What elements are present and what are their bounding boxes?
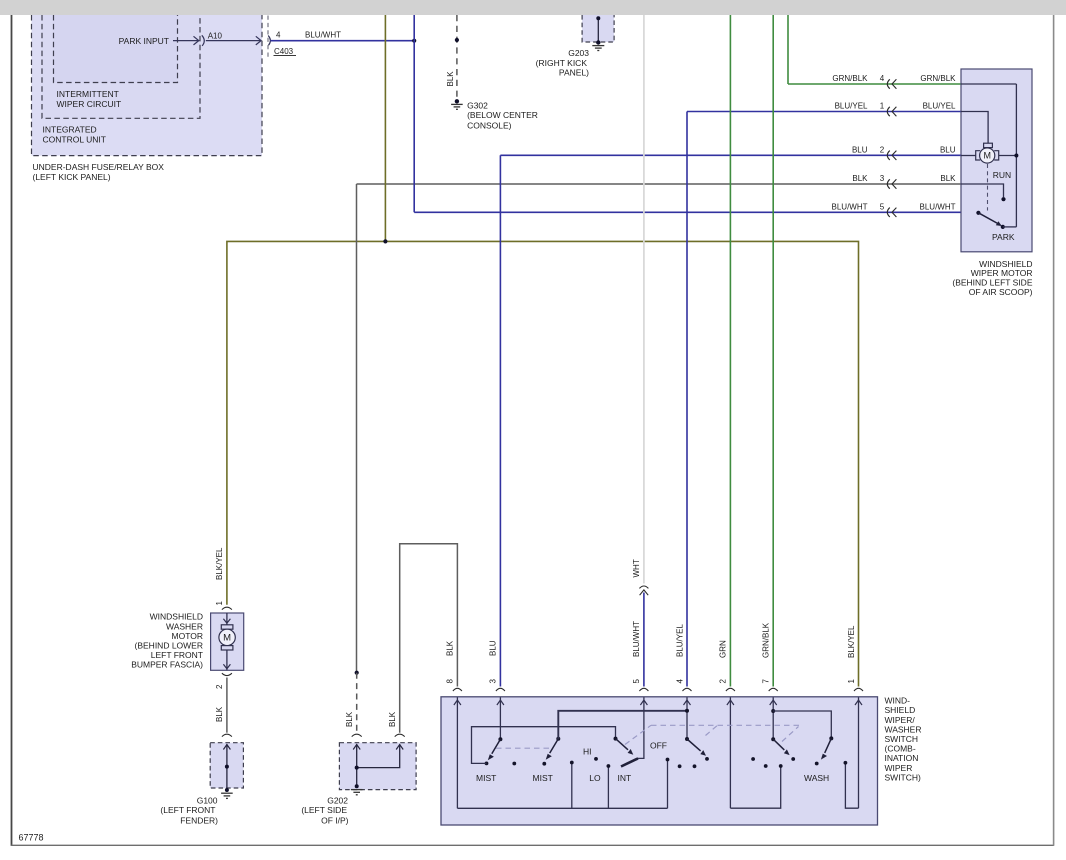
WASH feed contact bbox=[779, 764, 783, 768]
node bottom G203 bbox=[596, 40, 600, 44]
svg-text:PARK: PARK bbox=[992, 232, 1015, 242]
riser to OFF contact bbox=[667, 760, 669, 809]
svg-text:BLU/YEL: BLU/YEL bbox=[675, 624, 684, 657]
MIST arm 1 pivot bbox=[498, 737, 502, 741]
junction node motor to park line bbox=[1014, 154, 1018, 158]
WASH arm pivot bbox=[829, 736, 833, 740]
svg-text:MIST: MIST bbox=[533, 773, 553, 783]
svg-text:G302: G302 bbox=[467, 100, 488, 110]
svg-text:WIPER/: WIPER/ bbox=[885, 715, 916, 725]
pin 4 entry arrow to pivot bbox=[686, 697, 688, 739]
washer motor M symbol bbox=[219, 625, 235, 650]
connector arc G202 right bbox=[395, 734, 405, 736]
connector arc G202 left bbox=[352, 734, 362, 736]
pin 7 junction node bbox=[771, 709, 775, 713]
svg-text:WASH: WASH bbox=[804, 773, 829, 783]
svg-text:3: 3 bbox=[489, 679, 498, 684]
svg-text:INATION: INATION bbox=[885, 753, 919, 763]
wire BLK switch pin 8 to G202 bbox=[400, 544, 458, 733]
G100 internal wire with arrow bbox=[226, 744, 228, 790]
G100 ground node bbox=[225, 788, 229, 792]
svg-text:BLK: BLK bbox=[446, 71, 455, 87]
connector arc C403 bbox=[268, 36, 270, 46]
pin 3 entry arrow to MIST pivot bbox=[499, 697, 501, 739]
svg-text:67778: 67778 bbox=[19, 833, 44, 843]
svg-text:WINDSHIELD: WINDSHIELD bbox=[150, 612, 203, 622]
svg-text:LEFT FRONT: LEFT FRONT bbox=[151, 650, 203, 660]
wire BLK/YEL horizontal run bbox=[227, 241, 859, 686]
wire GRN/BLK row to wiper motor pin 4 bbox=[788, 74, 961, 89]
ground box G203 (dashed) bbox=[582, 15, 614, 42]
WASH arm blade bbox=[825, 738, 832, 753]
wire BLK row to wiper motor pin 3 bbox=[357, 174, 962, 189]
svg-text:BLU/YEL: BLU/YEL bbox=[923, 102, 956, 111]
pin 7 entry arrow bbox=[772, 697, 774, 739]
connector arc pin 4 bbox=[683, 688, 692, 691]
wiper motor park switch arm blade bbox=[978, 213, 997, 224]
HI contact bbox=[594, 757, 598, 761]
svg-text:BLK: BLK bbox=[446, 640, 455, 656]
connector arc washer pin 2 bbox=[222, 673, 232, 675]
riser to INT left contact bbox=[607, 766, 609, 808]
svg-text:PANEL): PANEL) bbox=[559, 67, 589, 77]
windshield wiper/washer switch box bbox=[441, 697, 878, 825]
connector arc pin 7 bbox=[769, 688, 778, 691]
svg-text:BLU: BLU bbox=[489, 640, 498, 656]
svg-text:A10: A10 bbox=[208, 31, 223, 40]
svg-text:SWITCH): SWITCH) bbox=[885, 772, 922, 782]
WASH arm contact bbox=[815, 762, 819, 766]
wiper motor M symbol bbox=[976, 143, 999, 163]
riser to LO contact bbox=[571, 763, 573, 809]
G202 ground node bbox=[355, 784, 359, 788]
label G202 (LEFT SIDE OF I/P) bbox=[301, 795, 348, 825]
ground node G302 bbox=[455, 99, 459, 103]
caption WINDSHIELD WASHER MOTOR (BEHIND LOWER LEFT FRONT BUMPER FASCIA) bbox=[131, 612, 203, 670]
svg-text:BLK: BLK bbox=[940, 174, 956, 183]
wire BLU row to wiper motor pin 2 bbox=[500, 145, 961, 160]
ground symbol G203 bbox=[592, 46, 604, 51]
svg-text:HI: HI bbox=[583, 747, 592, 757]
svg-text:2: 2 bbox=[215, 684, 224, 689]
OFF/INT arm pivot bbox=[614, 737, 618, 741]
svg-text:4: 4 bbox=[675, 679, 684, 684]
wiper motor internal GRN/BLK to park vertical bbox=[961, 83, 1016, 85]
under-dash fuse/relay box (outer dashed box) bbox=[32, 15, 263, 156]
junction node on BLU/WHT wire bbox=[412, 39, 416, 43]
ground box G100 (dashed) bbox=[210, 743, 243, 788]
contacts near pin 4 arm bbox=[678, 764, 682, 768]
pin 7 arm contact bbox=[791, 757, 795, 761]
svg-text:BUMPER FASCIA): BUMPER FASCIA) bbox=[131, 660, 203, 670]
pin 4 arm pivot bbox=[685, 737, 689, 741]
wire BLU/YEL row to wiper motor pin 1 bbox=[687, 102, 961, 117]
inline connector arcs WHT to BLU/WHT bbox=[639, 586, 648, 588]
svg-text:M: M bbox=[223, 633, 231, 644]
svg-text:MOTOR: MOTOR bbox=[172, 631, 203, 641]
connector C403 dashed line bbox=[267, 16, 269, 58]
wiper motor internal BLU/YEL to motor top bbox=[961, 112, 988, 144]
frame left border bbox=[11, 15, 13, 846]
ground symbol G202 bbox=[351, 790, 363, 795]
ground symbol G100 bbox=[221, 793, 233, 798]
RUN contact node bbox=[1001, 197, 1005, 201]
pin 8 entry arrow bbox=[456, 697, 458, 808]
svg-text:BLU/WHT: BLU/WHT bbox=[305, 31, 341, 40]
svg-text:4: 4 bbox=[880, 74, 885, 83]
G202 splice node bbox=[355, 766, 359, 770]
wire BLU/WHT row to wiper motor pin 5 bbox=[414, 202, 961, 217]
arrowhead at A10 bbox=[194, 36, 199, 45]
connector arc A10 bbox=[202, 35, 204, 46]
G202 internal left wire with arrow bbox=[356, 744, 358, 786]
svg-text:WIPER CIRCUIT: WIPER CIRCUIT bbox=[57, 99, 122, 109]
wire BLU/WHT from junction to motor row bbox=[413, 15, 415, 212]
frame right border bbox=[1053, 15, 1055, 846]
svg-text:CONTROL UNIT: CONTROL UNIT bbox=[43, 134, 106, 144]
svg-text:(COMB-: (COMB- bbox=[885, 744, 916, 754]
svg-text:5: 5 bbox=[880, 202, 885, 211]
svg-text:CONSOLE): CONSOLE) bbox=[467, 121, 512, 131]
svg-text:WASHER: WASHER bbox=[166, 621, 203, 631]
svg-text:1: 1 bbox=[847, 679, 856, 684]
wiper motor internal motor right to junction bbox=[999, 155, 1017, 157]
svg-text:GRN: GRN bbox=[719, 640, 728, 658]
wire BLK from motor row down to G202 splice bbox=[356, 184, 358, 673]
svg-text:BLK: BLK bbox=[345, 711, 354, 727]
connector arc pin 1 bbox=[854, 688, 863, 691]
svg-text:OF I/P): OF I/P) bbox=[321, 816, 349, 826]
node top G203 bbox=[596, 16, 600, 20]
svg-text:(LEFT KICK PANEL): (LEFT KICK PANEL) bbox=[33, 172, 111, 182]
junction node BLK/YEL bbox=[383, 239, 387, 243]
wiper motor internal BLU to motor left bbox=[961, 155, 976, 157]
washer internal wire in with arrow bbox=[226, 613, 228, 625]
wire PARK INPUT to connector A10 bbox=[173, 40, 198, 42]
svg-text:WIPER: WIPER bbox=[885, 763, 913, 773]
MIST arm 2 pivot bbox=[556, 737, 560, 741]
switch bottom bus left bbox=[457, 807, 667, 809]
svg-text:BLU: BLU bbox=[940, 145, 956, 154]
wire BLK dashed splice to G202 bbox=[356, 673, 358, 733]
svg-text:GRN/BLK: GRN/BLK bbox=[762, 622, 771, 658]
svg-text:SWITCH: SWITCH bbox=[885, 734, 919, 744]
svg-text:WIND-: WIND- bbox=[885, 696, 911, 706]
windshield wiper motor box bbox=[961, 69, 1032, 252]
wire BLK washer to G100 bbox=[226, 678, 228, 733]
svg-text:OF AIR SCOOP): OF AIR SCOOP) bbox=[969, 287, 1033, 297]
svg-text:(LEFT FRONT: (LEFT FRONT bbox=[160, 805, 215, 815]
svg-text:BLU/YEL: BLU/YEL bbox=[835, 102, 868, 111]
caption WIND-SHIELD WIPER/WASHER SWITCH (COMBINATION WIPER SWITCH) bbox=[885, 696, 922, 783]
wire BLU/YEL from motor row down to switch pin 4 bbox=[686, 112, 688, 687]
svg-text:BLK/YEL: BLK/YEL bbox=[215, 547, 224, 580]
svg-text:2: 2 bbox=[880, 145, 885, 154]
pin 4 arm contact bbox=[705, 757, 709, 761]
label G100 (LEFT FRONT FENDER) bbox=[160, 795, 218, 825]
svg-text:BLU/WHT: BLU/WHT bbox=[632, 621, 641, 657]
svg-text:OFF: OFF bbox=[650, 741, 667, 751]
svg-text:BLU/WHT: BLU/WHT bbox=[920, 202, 956, 211]
caption WINDSHIELD WIPER MOTOR (BEHIND LEFT SIDE OF AIR SCOOP) bbox=[952, 259, 1032, 297]
svg-text:M: M bbox=[983, 151, 991, 161]
INT contact bar (thick) bbox=[621, 758, 638, 766]
wire GRN/BLK from top down to switch pin 7 bbox=[772, 15, 774, 687]
svg-text:5: 5 bbox=[632, 679, 641, 684]
lone contacts left of WASH bbox=[751, 757, 755, 761]
wiper motor park switch arm pivot bbox=[976, 211, 980, 215]
PARK contact node bbox=[1001, 225, 1005, 229]
wire BLU/WHT to switch pin 5 bbox=[643, 593, 645, 687]
integrated control unit (middle dashed box) bbox=[42, 15, 200, 118]
svg-text:BLU/WHT: BLU/WHT bbox=[832, 202, 868, 211]
svg-text:INTERMITTENT: INTERMITTENT bbox=[57, 89, 119, 99]
wire inside G203 bbox=[597, 18, 599, 42]
svg-text:FENDER): FENDER) bbox=[180, 816, 218, 826]
svg-text:BLK/YEL: BLK/YEL bbox=[847, 625, 856, 658]
svg-text:GRN/BLK: GRN/BLK bbox=[920, 74, 956, 83]
G202 internal right wire with arrow bbox=[357, 744, 400, 767]
svg-text:3: 3 bbox=[880, 174, 885, 183]
arrowhead at C403 bbox=[256, 36, 261, 45]
svg-text:BLU: BLU bbox=[852, 145, 868, 154]
svg-text:UNDER-DASH FUSE/RELAY BOX: UNDER-DASH FUSE/RELAY BOX bbox=[33, 162, 165, 172]
frame bottom border bbox=[11, 844, 1054, 846]
svg-text:BLK: BLK bbox=[852, 174, 868, 183]
svg-text:RUN: RUN bbox=[993, 170, 1011, 180]
wiper motor internal BLK to RUN contact bbox=[961, 184, 1004, 197]
svg-text:C403: C403 bbox=[274, 47, 294, 56]
svg-text:G203: G203 bbox=[568, 48, 589, 58]
svg-text:(LEFT SIDE: (LEFT SIDE bbox=[301, 805, 347, 815]
ground box G202 (dashed) bbox=[339, 743, 416, 790]
wire PARK contact to vertical bbox=[1003, 226, 1017, 228]
svg-text:INT: INT bbox=[618, 773, 632, 783]
connector arc pin 2 bbox=[726, 688, 735, 691]
wire dashed BLK to G302 bbox=[456, 15, 458, 101]
mechanical dashed linkage MIST arms bbox=[496, 725, 803, 748]
MIST contact 1 wire to OFF pivot bbox=[472, 727, 616, 764]
ground symbol G302 bbox=[451, 104, 463, 109]
svg-text:G202: G202 bbox=[327, 795, 348, 805]
svg-text:WASHER: WASHER bbox=[885, 724, 922, 734]
svg-text:(BELOW CENTER: (BELOW CENTER bbox=[467, 110, 538, 120]
washer internal wire out with arrow bbox=[226, 650, 228, 670]
svg-text:MIST: MIST bbox=[476, 773, 496, 783]
svg-text:BLK: BLK bbox=[388, 711, 397, 727]
MIST arm 2 blade bbox=[550, 739, 559, 753]
pin 5 entry arrow to INT contact bbox=[637, 697, 644, 758]
wire BLU/WHT from C403 to junction bbox=[271, 40, 415, 42]
svg-text:1: 1 bbox=[215, 601, 224, 606]
connector arc pin 3 bbox=[496, 688, 505, 691]
svg-text:PARK INPUT: PARK INPUT bbox=[119, 36, 169, 46]
top gray toolbar band bbox=[0, 0, 1066, 15]
connector arc pin 8 bbox=[453, 688, 462, 691]
node on BLK wire bbox=[455, 38, 459, 42]
wire WHT from top (drawn over rows) bbox=[643, 15, 645, 584]
wire A10 to C403 bbox=[206, 40, 260, 42]
wire BLU from motor row down to switch pin 3 bbox=[499, 155, 501, 686]
junction node on pin 4 wire bbox=[685, 709, 689, 713]
intermittent wiper circuit (inner dashed box) bbox=[54, 15, 178, 83]
G100 splice node bbox=[225, 765, 229, 769]
svg-text:BLK: BLK bbox=[215, 706, 224, 722]
connector arc at G100 bbox=[222, 734, 232, 736]
windshield washer motor box bbox=[211, 613, 244, 670]
svg-text:WHT: WHT bbox=[632, 559, 641, 577]
connector arc washer pin 1 bbox=[222, 607, 232, 609]
svg-text:G100: G100 bbox=[197, 795, 218, 805]
switch bottom bus mid bbox=[730, 766, 780, 808]
pin 2 entry arrow to bus bbox=[729, 697, 731, 808]
pin 4 arm blade bbox=[687, 739, 701, 751]
OFF/INT arm blade bbox=[616, 739, 629, 750]
svg-text:4: 4 bbox=[276, 31, 281, 40]
svg-text:INTEGRATED: INTEGRATED bbox=[43, 125, 97, 135]
svg-text:(BEHIND LOWER: (BEHIND LOWER bbox=[135, 641, 203, 651]
svg-text:2: 2 bbox=[719, 679, 728, 684]
wire GRN from top down to switch pin 2 bbox=[729, 15, 731, 687]
svg-text:SHIELD: SHIELD bbox=[885, 705, 916, 715]
pin 7 arm pivot bbox=[771, 737, 775, 741]
svg-text:GRN/BLK: GRN/BLK bbox=[832, 74, 868, 83]
connector arc pin 5 bbox=[639, 688, 648, 691]
svg-text:8: 8 bbox=[446, 679, 455, 684]
pin 7 link to WASH arm bbox=[773, 711, 831, 738]
wire GRN/BLK from top to wiper motor row bbox=[787, 15, 789, 84]
MIST contact 1 bbox=[485, 762, 489, 766]
MIST contact 2 bbox=[542, 762, 546, 766]
pin 7 arm blade bbox=[773, 739, 784, 750]
splice node BLK bbox=[355, 671, 359, 675]
MIST arm 1 blade bbox=[492, 739, 501, 753]
lone contact between MIST positions bbox=[512, 762, 516, 766]
svg-text:LO: LO bbox=[589, 773, 601, 783]
svg-text:7: 7 bbox=[762, 679, 771, 684]
pin 1 entry arrow to bus bbox=[858, 697, 860, 808]
svg-text:(RIGHT KICK: (RIGHT KICK bbox=[536, 58, 588, 68]
MIST arm 2 riser and link to pin 4 bbox=[558, 711, 687, 739]
svg-text:1: 1 bbox=[880, 102, 885, 111]
riser pin 1 to contact bbox=[845, 763, 858, 808]
wire BLK/YEL vertical from top bbox=[384, 15, 386, 241]
mechanical dashed link motor to switch arm bbox=[987, 164, 989, 211]
